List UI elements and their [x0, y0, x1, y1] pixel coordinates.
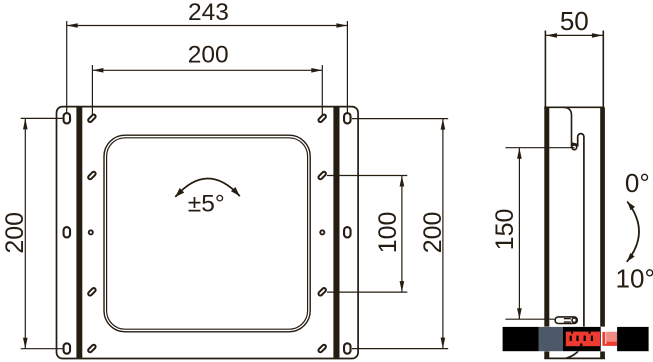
watermark band: black block 3 — [617, 327, 649, 351]
plate outline (front view) — [57, 107, 359, 359]
side view: back plate edge-on thick bar — [600, 107, 605, 327]
hole: inner-left small circle — [89, 230, 93, 234]
slots: inner-left column diagonal slots — [87, 114, 96, 353]
dimension 200 top line — [92, 65, 322, 118]
dimension 150 line — [505, 148, 574, 320]
inner rounded square opening outer line — [104, 135, 310, 332]
side view: right thin extension line — [602, 31, 604, 108]
left flange bar (edge-on) — [76, 107, 82, 358]
slots: inner-right column diagonal slots — [318, 114, 327, 353]
svg-text:200: 200 — [188, 42, 229, 69]
svg-text:0°: 0° — [625, 168, 650, 198]
svg-text:200: 200 — [419, 212, 447, 254]
side view: top edge — [544, 106, 604, 108]
slots: outer-right column vertical slots — [344, 113, 351, 354]
dimension 243 line — [67, 21, 348, 118]
dimension 50 line — [546, 34, 603, 36]
side view: left thin extension line — [544, 31, 546, 108]
side view: flange lip curve — [564, 107, 572, 147]
side view: pivot circle — [572, 145, 577, 150]
watermark band: slate block — [539, 327, 564, 351]
svg-text:150: 150 — [491, 209, 519, 251]
watermark band: black block 1 — [503, 327, 539, 351]
watermark band: red block with light patch — [602, 332, 617, 346]
curved arrow ±5° — [175, 178, 240, 196]
side view: bottom keyhole slot — [555, 317, 577, 324]
svg-text:243: 243 — [188, 0, 229, 26]
right flange bar (edge-on) — [333, 107, 339, 358]
watermark band: black details over red scribbles — [570, 332, 593, 347]
side view: bottom edge — [544, 357, 605, 359]
svg-text:±5°: ±5° — [188, 191, 225, 218]
dimension 200 right line — [352, 119, 448, 349]
svg-text:200: 200 — [1, 212, 29, 254]
side view: left thick flange edge — [544, 107, 549, 358]
watermark band: black block 2 — [563, 327, 601, 351]
dimension 100 right line — [327, 176, 407, 293]
slots: outer-left column vertical slots — [64, 113, 71, 354]
side view: hook tab and long inner edge — [566, 134, 584, 359]
side view: dark wedge at pivot — [572, 142, 577, 147]
svg-text:10°: 10° — [616, 264, 653, 294]
curved arrow 0°-10° — [627, 202, 639, 262]
inner rounded square opening inner line — [107, 138, 308, 329]
hole: inner-right small circle — [320, 230, 324, 234]
svg-text:100: 100 — [374, 212, 402, 254]
watermark band: red logo scribbles — [566, 332, 600, 347]
svg-text:50: 50 — [560, 6, 589, 36]
side view: back plate bottom stub — [600, 351, 605, 358]
dimension 200 left line — [21, 118, 63, 348]
watermark band: white backing — [501, 327, 653, 352]
